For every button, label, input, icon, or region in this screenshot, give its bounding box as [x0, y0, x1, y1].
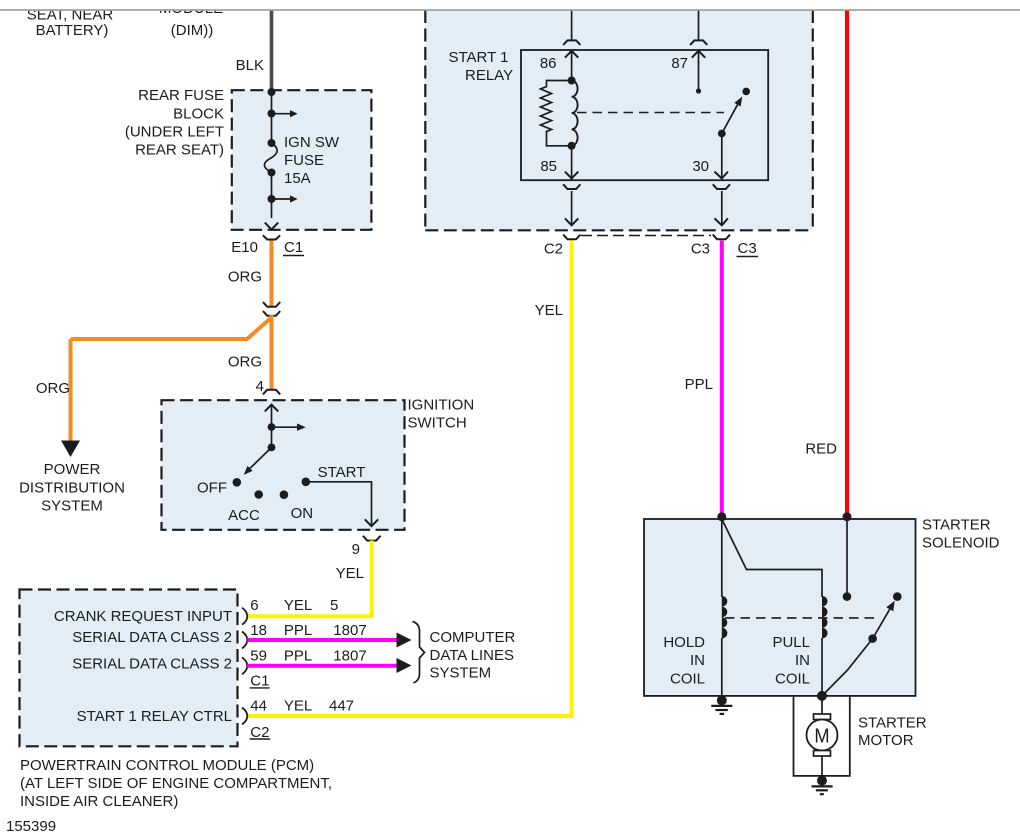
svg-text:REAR FUSE: REAR FUSE [138, 87, 224, 104]
label pin 6 YEL 5 [250, 597, 338, 614]
svg-text:85: 85 [540, 158, 557, 175]
svg-text:BATTERY): BATTERY) [36, 22, 109, 39]
svg-text:FUSE: FUSE [284, 152, 324, 169]
hold in coil (4 filled bumps) [722, 596, 728, 639]
svg-text:C1: C1 [250, 672, 269, 689]
box PCM dashed [20, 590, 238, 747]
contact ON [280, 490, 289, 499]
starter motor bracket [794, 696, 850, 776]
motor bottom terminal [814, 751, 831, 757]
arrowhead down above dashed border (30) [715, 218, 728, 225]
relay switch contact dot (NO) [742, 88, 750, 96]
relay coil top dot [568, 77, 576, 85]
svg-text:9: 9 [352, 541, 360, 558]
wire ORG splice: vertical + diagonal branch + horizontal to left [71, 315, 272, 441]
svg-text:ORG: ORG [228, 269, 262, 286]
svg-text:RED: RED [805, 441, 837, 458]
svg-text:ORG: ORG [36, 380, 70, 397]
wire hold-in coil feed [721, 519, 723, 597]
pull in coil (4 filled bumps) [822, 596, 828, 639]
solenoid output junction dot [817, 691, 827, 701]
solenoid contact dot (battery side) [843, 592, 852, 601]
ground symbol (hold-in coil) [711, 706, 732, 714]
solenoid contact dot (motor side) [893, 592, 902, 601]
label IGNITION SWITCH [408, 397, 475, 432]
relay pin 86 arrow up [565, 51, 578, 81]
svg-text:(AT LEFT SIDE OF ENGINE COMPAR: (AT LEFT SIDE OF ENGINE COMPARTMENT, [20, 775, 332, 792]
wire PPL serial data pin 18 [247, 638, 397, 642]
svg-text:(UNDER LEFT: (UNDER LEFT [125, 124, 224, 141]
svg-text:ORG: ORG [228, 354, 262, 371]
connector tent above pin 86 [563, 40, 580, 45]
contact OFF [233, 478, 242, 487]
wire junction to motor [821, 696, 823, 714]
solenoid switch arm with arrowhead [873, 601, 895, 639]
node tap with right arrow inside ignition switch [268, 423, 306, 431]
inline connector (two halves) on ORG wire [263, 302, 280, 316]
svg-text:447: 447 [329, 697, 354, 714]
svg-text:CRANK REQUEST INPUT: CRANK REQUEST INPUT [54, 608, 232, 625]
node tap with right arrow (upper) [268, 110, 298, 118]
svg-text:SERIAL DATA CLASS 2: SERIAL DATA CLASS 2 [72, 656, 232, 673]
svg-text:START 1: START 1 [449, 49, 509, 66]
svg-text:SYSTEM: SYSTEM [41, 498, 103, 515]
switch pivot dot [268, 444, 276, 452]
box IGNITION SWITCH dashed [162, 400, 405, 530]
svg-text:IGNITION: IGNITION [408, 397, 475, 414]
arrowhead up at pin 4 entry [265, 405, 278, 412]
label pin 59 PPL 1807 [250, 648, 366, 665]
svg-text:IN: IN [690, 652, 705, 669]
arrowhead computer data lines (pin 59) [397, 658, 412, 673]
svg-text:COIL: COIL [670, 671, 705, 688]
pin bracket PCM pin 18 [242, 632, 247, 649]
svg-text:REAR SEAT): REAR SEAT) [135, 142, 224, 159]
svg-text:155399: 155399 [6, 818, 56, 835]
svg-text:DATA LINES: DATA LINES [430, 647, 514, 664]
svg-text:C1: C1 [284, 239, 303, 256]
label C2 underlined (PCM) [250, 724, 271, 741]
svg-text:SWITCH: SWITCH [408, 415, 467, 432]
pin bracket PCM pin 59 [242, 657, 247, 674]
wire into relay pin 86 from top [571, 11, 573, 40]
ground dot below motor [817, 776, 827, 786]
wire YEL from ignition pin 9 to PCM pin 6 [247, 541, 371, 617]
arrowhead down above dashed border (85) [565, 218, 578, 225]
top clip mask [0, 0, 1020, 9]
label REAR FUSE BLOCK (UNDER LEFT REAR SEAT) [125, 87, 224, 159]
label C1 underlined [283, 239, 304, 256]
arrowhead down at pin 85 [565, 172, 578, 179]
wire RED from top to solenoid [845, 11, 849, 517]
contact START [302, 478, 311, 487]
wire ignition common [271, 405, 273, 448]
box relay solid body [521, 50, 768, 180]
box STARTER SOLENOID [644, 519, 916, 696]
solenoid RED terminal dot [843, 512, 852, 521]
fuse IGN SW FUSE 15A (S-curve element) [264, 139, 277, 177]
label C3 underlined [737, 240, 759, 257]
svg-text:C3: C3 [691, 240, 710, 257]
connector E10 / C1 cup symbol [263, 235, 280, 239]
svg-text:E10: E10 [231, 239, 258, 256]
connector cup below relay pin 30 [713, 184, 730, 189]
svg-text:START 1 RELAY CTRL: START 1 RELAY CTRL [77, 708, 232, 725]
box REAR FUSE BLOCK dashed [232, 90, 372, 230]
off-page arrow to POWER DISTRIBUTION SYSTEM [61, 441, 80, 458]
svg-text:1807: 1807 [333, 622, 366, 639]
svg-text:OFF: OFF [197, 480, 227, 497]
svg-text:30: 30 [692, 158, 709, 175]
label POWERTRAIN CONTROL MODULE (PCM) caption [20, 757, 332, 810]
relay coil bottom dot [568, 142, 576, 150]
wire inside fuse block [271, 90, 273, 218]
motor top terminal [814, 714, 831, 720]
connector tent at ignition switch pin 4 [263, 390, 280, 395]
label clipped text MODULE (DIM)) [159, 0, 223, 39]
relay pin 87 arrow up and stub [692, 51, 705, 94]
label pin 44 YEL 447 [250, 697, 354, 714]
wire ORG from C1 down to inline connector [270, 241, 274, 307]
wire YEL from relay C2 to PCM pin 44 [247, 241, 571, 717]
wire BLK vertical [270, 11, 274, 90]
svg-text:18: 18 [250, 622, 267, 639]
svg-text:YEL: YEL [336, 565, 364, 582]
relay coil (4 bumps) [572, 81, 578, 146]
wire PPL serial data pin 59 [247, 664, 397, 668]
connector cup below relay pin 85 [563, 184, 580, 189]
resistor R (parallel with coil) [541, 81, 572, 146]
svg-text:15A: 15A [284, 170, 311, 187]
svg-text:PPL: PPL [284, 648, 312, 665]
label HOLD IN COIL [663, 634, 705, 688]
svg-text:87: 87 [671, 55, 688, 72]
solenoid armature dashed coupling [725, 617, 876, 619]
svg-text:YEL: YEL [535, 302, 563, 319]
wire battery stud inside solenoid [846, 519, 848, 597]
junction dot at fuse block top [268, 88, 276, 96]
svg-text:MOTOR: MOTOR [858, 732, 914, 749]
brace computer data lines [413, 622, 425, 684]
connector face dashed line between C2 and C3 [581, 235, 711, 237]
node tap with right arrow (lower) [268, 195, 298, 203]
arrowhead down at pin 30 [715, 172, 728, 179]
svg-text:6: 6 [250, 597, 258, 614]
label POWER DISTRIBUTION SYSTEM [19, 461, 125, 515]
ground symbol (motor) [812, 786, 833, 794]
label PULL IN COIL [772, 634, 810, 688]
solenoid switch linkage to junction [822, 639, 873, 696]
connector tent above pin 87 [690, 40, 707, 45]
arrowhead down at fuse block exit [265, 223, 278, 230]
arrowhead down at pin 9 [365, 519, 378, 526]
svg-text:IGN SW: IGN SW [284, 134, 340, 151]
svg-text:ON: ON [291, 505, 314, 522]
connector cup pin 9 [363, 536, 381, 541]
svg-text:STARTER: STARTER [858, 715, 927, 732]
wire pull-in coil to junction [821, 638, 823, 696]
solenoid switch pivot dot [868, 634, 877, 643]
svg-text:YEL: YEL [284, 697, 312, 714]
svg-text:START: START [318, 464, 366, 481]
label pin 18 PPL 1807 [250, 622, 366, 639]
svg-text:5: 5 [330, 597, 338, 614]
wire from START contact to pin 9 [306, 482, 372, 525]
svg-text:POWER: POWER [44, 461, 101, 478]
label COMPUTER DATA LINES SYSTEM [430, 629, 516, 682]
svg-text:IN: IN [795, 652, 810, 669]
arrowhead computer data lines (pin 18) [397, 633, 412, 648]
svg-text:COIL: COIL [775, 671, 810, 688]
pin bracket PCM pin 6 [242, 608, 247, 625]
label START 1 RELAY [449, 49, 514, 84]
wire pin 30 down from common [721, 134, 723, 181]
connector C2 cup [563, 235, 580, 240]
label IGN SW FUSE 15A [284, 134, 340, 187]
connector C3 cup [713, 235, 730, 240]
svg-text:C3: C3 [738, 240, 757, 257]
svg-text:PPL: PPL [685, 376, 713, 393]
svg-text:COMPUTER: COMPUTER [430, 629, 516, 646]
svg-text:SYSTEM: SYSTEM [430, 665, 492, 682]
wire pull-in coil feed (diagonal + horizontal + vertical) [722, 519, 822, 597]
svg-text:BLOCK: BLOCK [173, 106, 224, 123]
svg-text:BLK: BLK [236, 57, 264, 74]
relay switch common dot [718, 130, 726, 138]
label clipped text SEAT, NEAR BATTERY) [27, 7, 114, 39]
wire PPL from relay C3 to solenoid [720, 241, 724, 518]
box START 1 RELAY outer dashed housing [425, 10, 813, 230]
svg-text:ACC: ACC [228, 507, 260, 524]
svg-text:1807: 1807 [333, 648, 366, 665]
svg-text:YEL: YEL [284, 597, 312, 614]
relay armature dashed coupling line [577, 112, 724, 114]
svg-text:STARTER: STARTER [922, 517, 991, 534]
svg-text:DISTRIBUTION: DISTRIBUTION [19, 480, 125, 497]
svg-text:44: 44 [250, 697, 267, 714]
wire pin 85 down from coil [571, 146, 573, 180]
wire relay 30 to dashed border [721, 191, 723, 224]
wire hold-in coil to ground [721, 638, 723, 698]
svg-text:POWERTRAIN CONTROL MODULE (PCM: POWERTRAIN CONTROL MODULE (PCM) [20, 757, 314, 774]
svg-text:INSIDE AIR CLEANER): INSIDE AIR CLEANER) [20, 793, 178, 810]
svg-text:PULL: PULL [772, 634, 810, 651]
relay switch arm with arrowhead [722, 97, 743, 134]
svg-text:RELAY: RELAY [465, 67, 513, 84]
wire motor to ground [821, 756, 823, 781]
switch arm toward OFF [244, 448, 272, 475]
svg-text:PPL: PPL [284, 622, 312, 639]
svg-text:HOLD: HOLD [663, 634, 705, 651]
svg-text:59: 59 [250, 648, 267, 665]
solenoid PPL terminal dot [717, 512, 726, 521]
svg-text:86: 86 [540, 55, 557, 72]
svg-text:C2: C2 [544, 240, 563, 257]
svg-text:(DIM)): (DIM)) [171, 22, 213, 39]
wire into relay pin 87 from top [698, 11, 700, 40]
label STARTER MOTOR [858, 715, 927, 750]
label C1 underlined (PCM) [250, 672, 270, 689]
pin bracket PCM pin 44 [242, 708, 247, 725]
wire relay 85 to dashed border [571, 191, 573, 224]
label STARTER SOLENOID [922, 517, 1000, 552]
svg-text:M: M [814, 725, 829, 748]
motor M circle [807, 720, 838, 751]
svg-text:SERIAL DATA CLASS 2: SERIAL DATA CLASS 2 [72, 629, 232, 646]
svg-text:SOLENOID: SOLENOID [922, 534, 1000, 551]
top grey separator line [0, 9, 1020, 11]
svg-text:4: 4 [256, 378, 264, 395]
contact ACC [254, 490, 263, 499]
ground dot below hold-in coil [717, 695, 727, 705]
